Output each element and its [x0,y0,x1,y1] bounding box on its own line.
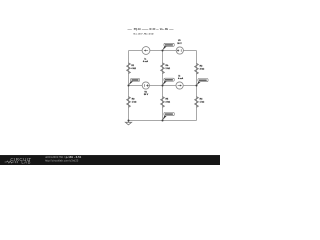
resistor R2 [195,63,205,74]
resistor R4 [195,97,205,108]
resistor R3 [127,97,137,108]
wire right rail [196,51,198,121]
flag node A (top) [163,43,175,50]
resistor Rb [161,63,171,74]
svg-text:2 kΩ: 2 kΩ [166,68,171,70]
svg-text:N=40: N=40 [150,28,156,31]
svg-text:4 mA: 4 mA [178,77,184,80]
flag node B (mid left) [129,78,140,85]
title line 1 [128,28,174,31]
svg-text:Va = -50 V , Rb = 2 kΩ: Va = -50 V , Rb = 2 kΩ [133,33,154,35]
node junction bottom left (ground node) [128,120,130,122]
wire top [129,50,197,52]
resistor R5 [161,97,171,108]
svg-text:4 kΩ: 4 kΩ [200,67,205,70]
CircuitLab logo [5,157,32,165]
footer bar [0,155,220,165]
flag node D (mid right) [197,79,209,86]
node junction mid middle [162,85,164,87]
current source Ib [176,76,184,89]
wire left rail [128,51,130,121]
node junction top middle [162,50,164,52]
svg-text:PQ.19: PQ.19 [134,28,141,31]
footer info text [45,155,82,162]
node junction bottom middle [162,120,164,122]
ground [125,121,131,125]
current source Ia [142,47,150,63]
svg-text:2 kΩ: 2 kΩ [166,102,171,104]
wire middle [129,85,197,87]
wire middle rail [162,51,164,121]
voltage source Vb [142,82,149,96]
svg-text:50 V: 50 V [177,43,182,45]
flag node E (bottom middle) [163,112,175,120]
node junction mid right [196,85,198,87]
node junction mid left [128,85,130,87]
svg-text:Rb: Rb [165,28,169,31]
svg-text:4 kΩ: 4 kΩ [131,67,136,70]
voltage source V0 [176,40,183,54]
svg-text:1 kΩ: 1 kΩ [200,102,205,104]
wire bottom [129,120,197,122]
svg-text:1 kΩ: 1 kΩ [132,102,137,104]
resistor R1 [127,63,137,74]
flag node C (mid middle) [163,78,175,85]
svg-text:4 mA: 4 mA [143,60,149,63]
svg-text:LAB: LAB [21,160,31,165]
svg-text:http://circuitlab.com/c3rd25: http://circuitlab.com/c3rd25 [45,158,79,162]
svg-text:50 V: 50 V [144,94,149,96]
